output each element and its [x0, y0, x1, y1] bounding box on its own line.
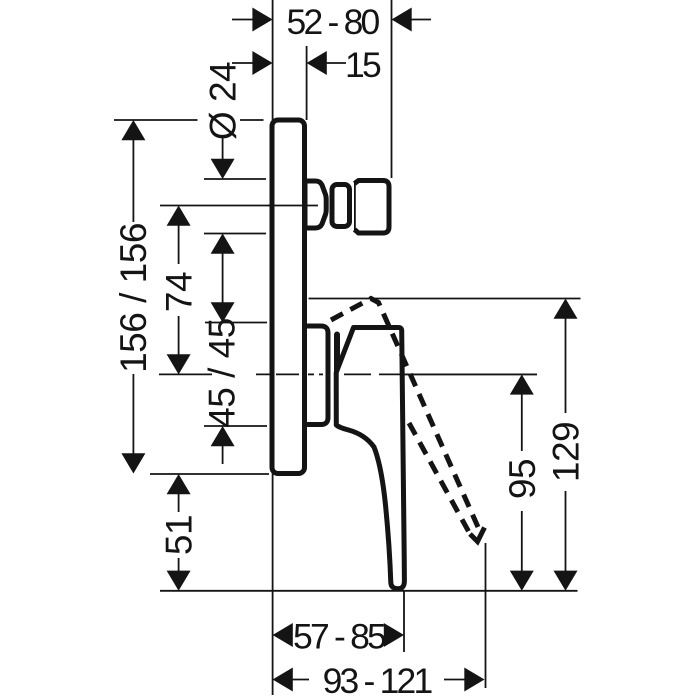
wire: bottom baseline [160, 590, 578, 592]
lever handle (down position) [336, 328, 404, 589]
wire: dashed-lever top extension line for 129 [309, 298, 581, 300]
svg-text:52 - 80: 52 - 80 [287, 2, 380, 42]
wire: dashed lever tip extension line for 93-121 [485, 543, 487, 688]
dimension 52-80 [232, 2, 431, 42]
wire: sleeve top extension line [205, 322, 267, 324]
dimension 156/156 [113, 120, 154, 474]
centerline through knob (redrawn over parts) [268, 205, 318, 207]
wire: plate face extension line for 15 [306, 46, 308, 120]
svg-text:156 / 156: 156 / 156 [113, 223, 154, 373]
knob cylinder (mid section) [332, 185, 350, 227]
svg-text:Ø 24: Ø 24 [203, 62, 244, 140]
svg-text:93 - 121: 93 - 121 [323, 661, 433, 700]
dimension 129 [546, 299, 587, 591]
escutcheon plate [272, 120, 305, 474]
dimension 57-85 [273, 617, 404, 657]
svg-text:51: 51 [159, 515, 200, 555]
svg-text:74: 74 [159, 272, 200, 312]
svg-text:15: 15 [345, 45, 381, 85]
svg-text:95: 95 [502, 459, 543, 499]
svg-text:45 / 45: 45 / 45 [202, 318, 243, 428]
dimension Ø24 with 45/45 arrows [202, 62, 244, 464]
wire: knob centerline [160, 205, 318, 207]
dashed lever (raised position) [331, 299, 485, 542]
wire: wall extension line [272, 0, 274, 695]
sleeve (handle escutcheon sleeve) [304, 326, 328, 425]
knob bulge (conical adapter on plate) [305, 181, 326, 228]
wire: handle hub centerline [159, 373, 212, 375]
svg-text:57 - 85: 57 - 85 [293, 617, 386, 657]
dimension 15 [232, 45, 381, 85]
svg-text:129: 129 [546, 422, 587, 482]
dimension 95 [502, 374, 543, 590]
knob cap inner edge line [354, 182, 356, 232]
wire: knob top extension line [204, 178, 266, 180]
hub band [334, 332, 340, 419]
centerline through hub (redrawn over parts) [276, 373, 537, 375]
dimension 51 [159, 474, 200, 591]
dimension 74 [159, 206, 200, 375]
wire: knob face extension line [391, 0, 393, 178]
wire: lever tip extension line for 57-85 [403, 591, 405, 652]
knob end cap [355, 181, 390, 234]
wire: plate bottom extension line [150, 473, 269, 475]
wire: plate top extension line [114, 119, 198, 121]
dimension 93-121 [273, 661, 485, 700]
wire: sleeve bottom extension line [204, 425, 267, 427]
wire: knob bottom extension line [204, 233, 266, 235]
